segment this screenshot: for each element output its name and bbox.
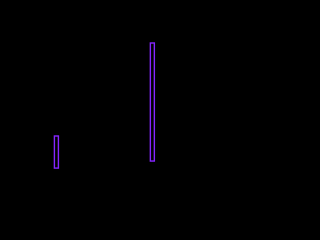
bar 2 (tall right bar): [150, 43, 154, 161]
bar 1 (short left bar): [54, 136, 58, 168]
